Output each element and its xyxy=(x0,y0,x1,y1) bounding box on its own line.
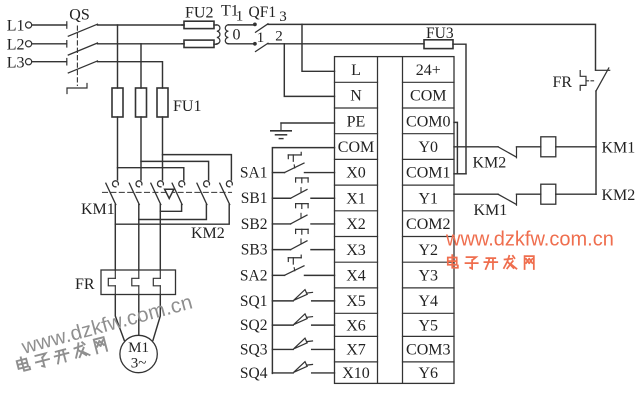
label terminal 0 of T1 xyxy=(233,27,241,44)
wire Y1 rung xyxy=(454,193,498,195)
fuse FU3 xyxy=(424,40,453,49)
svg-text:SQ4: SQ4 xyxy=(240,365,268,382)
terminal L2 xyxy=(7,36,67,53)
contact KM1 pole3 xyxy=(151,181,164,205)
wire to coil KM1 xyxy=(517,146,541,148)
watermark (red) xyxy=(445,229,614,270)
wire FR to motor W xyxy=(153,295,160,341)
svg-text:2: 2 xyxy=(275,28,283,44)
label FU3 xyxy=(426,25,454,42)
wire stub COM1 xyxy=(454,173,466,175)
svg-text:X10: X10 xyxy=(342,365,370,382)
watermark (gray) xyxy=(16,290,195,373)
svg-text:SB3: SB3 xyxy=(241,242,268,259)
svg-text:X3: X3 xyxy=(346,242,366,259)
svg-text:L3: L3 xyxy=(7,54,25,71)
coil KM1 xyxy=(541,137,556,157)
wire FR to motor U xyxy=(115,295,124,341)
switch SB3 (input X3) xyxy=(241,229,335,258)
wire tap to PLC N xyxy=(284,44,334,97)
svg-text:SB1: SB1 xyxy=(241,190,268,207)
svg-text:KM2: KM2 xyxy=(191,225,225,242)
svg-text:L1: L1 xyxy=(7,18,25,35)
wire phase L1 to FU2 xyxy=(98,24,185,26)
svg-text:0: 0 xyxy=(233,27,241,44)
svg-text:FU2: FU2 xyxy=(185,5,213,22)
wire tap L2 down to FU1 xyxy=(140,44,142,88)
PLC terminal block frame xyxy=(335,57,455,384)
svg-text:SQ2: SQ2 xyxy=(240,317,268,334)
svg-text:1: 1 xyxy=(257,30,265,46)
wire phase L2 to FU2 xyxy=(98,43,185,45)
svg-text:KM2: KM2 xyxy=(602,187,636,204)
fuse FU1b xyxy=(136,88,147,117)
wire FU1b to KM1 pole2 xyxy=(140,117,142,180)
label terminal 1 of T1 xyxy=(236,9,244,25)
wire FU3 to COM0/COM1 xyxy=(453,44,466,174)
switch SA1 (input X0) xyxy=(240,152,335,181)
PLC left terminal labels xyxy=(338,62,374,382)
svg-text:N: N xyxy=(350,88,362,105)
label KM2 xyxy=(191,225,225,242)
svg-text:FU3: FU3 xyxy=(426,25,454,42)
contact KM2 pole6 xyxy=(220,181,233,205)
svg-text:X5: X5 xyxy=(346,293,366,310)
switch SA2 (input X4) xyxy=(240,255,335,284)
contact FR (NC, overload) xyxy=(580,68,610,91)
svg-text:FR: FR xyxy=(75,276,95,293)
svg-text:SB2: SB2 xyxy=(241,216,268,233)
label KM1 (coil) xyxy=(602,139,636,156)
svg-text:SQ1: SQ1 xyxy=(240,293,268,310)
contact KM2 pole5 xyxy=(197,181,210,205)
svg-text:COM0: COM0 xyxy=(406,113,450,130)
svg-text:SQ3: SQ3 xyxy=(240,341,268,358)
svg-text:KM2: KM2 xyxy=(473,155,507,172)
svg-text:L2: L2 xyxy=(7,36,25,53)
wire KM2 pole6 output crossover xyxy=(115,205,229,225)
svg-text:QF1: QF1 xyxy=(249,4,277,21)
svg-text:Y1: Y1 xyxy=(418,190,438,207)
svg-text:KM1: KM1 xyxy=(602,139,636,156)
switch QS (3-pole disconnect) xyxy=(67,7,98,94)
label 3 xyxy=(279,9,287,25)
contact KM1 pole2 xyxy=(129,181,142,205)
svg-text:COM: COM xyxy=(338,139,374,156)
wire tap to PLC L xyxy=(302,24,335,71)
overload relay FR heaters xyxy=(101,270,176,295)
switch SQ1 (input X5) xyxy=(240,290,335,310)
wire right rail xyxy=(595,91,597,194)
switch SQ2 (input X6) xyxy=(240,314,335,334)
ground (PE) xyxy=(271,123,335,139)
wire node3 top rail xyxy=(268,24,596,70)
fuse FU1c xyxy=(157,88,168,117)
label FR xyxy=(75,276,95,293)
label FU1 xyxy=(173,98,201,115)
svg-text:X6: X6 xyxy=(346,317,366,334)
svg-text:Y0: Y0 xyxy=(418,139,438,156)
wire KM1 pole3 output xyxy=(159,205,161,270)
wire KM1 pole1 output xyxy=(114,205,116,270)
wire stub COM0 xyxy=(454,122,457,173)
label FR (contact) xyxy=(553,74,573,91)
svg-text:Y3: Y3 xyxy=(418,267,438,284)
switch SQ3 (input X7) xyxy=(240,338,335,358)
wire coil KM1 to rail xyxy=(556,146,596,148)
svg-text:L: L xyxy=(351,62,361,79)
wire tap L1 down to FU1 xyxy=(117,25,119,88)
svg-text:X2: X2 xyxy=(346,216,366,233)
contact KM1 (NC interlock) xyxy=(498,194,517,205)
svg-text:Y6: Y6 xyxy=(418,365,438,382)
svg-text:COM3: COM3 xyxy=(406,342,450,359)
svg-text:KM1: KM1 xyxy=(474,202,508,219)
breaker QF1 pole 2 xyxy=(253,42,268,52)
wire phase L3 xyxy=(98,62,163,88)
wire FU1c to KM1 pole3 xyxy=(162,117,164,180)
fuse FU1a xyxy=(112,88,123,117)
wire COM bus xyxy=(272,148,334,374)
wire coil KM2 to rail xyxy=(556,193,596,195)
svg-text:X0: X0 xyxy=(346,165,366,182)
svg-text:COM2: COM2 xyxy=(406,216,450,233)
svg-text:COM: COM xyxy=(410,88,446,105)
svg-text:SA2: SA2 xyxy=(240,267,268,284)
wire FU1a to KM1 pole1 xyxy=(117,117,119,180)
label KM1 xyxy=(81,201,115,218)
svg-text:PE: PE xyxy=(347,113,366,130)
wire crossfeed L3 to KM2 pole6 xyxy=(163,155,232,180)
fuse FU2b xyxy=(182,40,214,47)
svg-text:3~: 3~ xyxy=(131,356,147,372)
svg-text:FU1: FU1 xyxy=(173,98,201,115)
svg-text:X4: X4 xyxy=(346,267,366,284)
fuse FU2a xyxy=(182,21,214,28)
svg-text:COM1: COM1 xyxy=(406,165,450,182)
motor M1 xyxy=(120,335,157,372)
wire crossfeed L2 to KM2 pole5 xyxy=(141,161,209,180)
contact KM1 pole1 xyxy=(106,181,119,205)
contact KM2 (NC interlock) xyxy=(498,147,517,158)
PLC right terminal labels xyxy=(406,62,450,382)
svg-text:X1: X1 xyxy=(346,190,366,207)
switch SB1 (input X1) xyxy=(241,178,335,207)
svg-text:SA1: SA1 xyxy=(240,164,268,181)
wire KM2 pole4 output crossover xyxy=(160,205,181,212)
svg-text:X7: X7 xyxy=(346,342,366,359)
coil KM2 xyxy=(541,184,556,204)
switch SB2 (input X2) xyxy=(241,204,335,233)
label QF1 xyxy=(249,4,277,21)
breaker QF1 pole 1 xyxy=(253,23,268,33)
label T1 xyxy=(221,3,239,20)
contact KM2 pole4 xyxy=(172,181,185,205)
wire crossfeed L1 to KM2 pole4 xyxy=(118,168,184,180)
svg-text:Y4: Y4 xyxy=(418,293,438,310)
switch SQ4 (input X10) xyxy=(240,362,335,382)
svg-text:3: 3 xyxy=(279,9,287,25)
svg-text:QS: QS xyxy=(69,7,89,24)
wire KM1 pole2 output xyxy=(138,205,140,270)
label KM1 (interlock) xyxy=(474,202,508,219)
label KM2 (interlock) xyxy=(473,155,507,172)
wire KM2 pole5 output crossover xyxy=(139,205,207,220)
label 1 xyxy=(257,30,265,46)
interlock triangle xyxy=(165,189,174,198)
terminal L1 xyxy=(7,18,67,35)
wire to coil KM2 xyxy=(517,193,541,195)
wire Y0 rung xyxy=(454,146,498,148)
svg-text:24+: 24+ xyxy=(416,62,441,79)
label FU2 xyxy=(185,5,213,22)
transformer T1 xyxy=(214,25,253,44)
wire FR to motor V xyxy=(138,295,140,336)
mech link dashed (KM1/KM2) xyxy=(103,191,232,193)
svg-text:1: 1 xyxy=(236,9,244,25)
svg-text:www.dzkfw.com.cn: www.dzkfw.com.cn xyxy=(445,229,614,251)
wire node2 rail xyxy=(268,43,424,45)
svg-text:Y5: Y5 xyxy=(418,317,438,334)
terminal L3 xyxy=(7,54,67,71)
svg-text:KM1: KM1 xyxy=(81,201,115,218)
label KM2 (coil) xyxy=(602,187,636,204)
svg-text:Y2: Y2 xyxy=(418,242,438,259)
svg-text:M1: M1 xyxy=(128,340,149,356)
label 2 xyxy=(275,28,283,44)
svg-text:FR: FR xyxy=(553,74,573,91)
